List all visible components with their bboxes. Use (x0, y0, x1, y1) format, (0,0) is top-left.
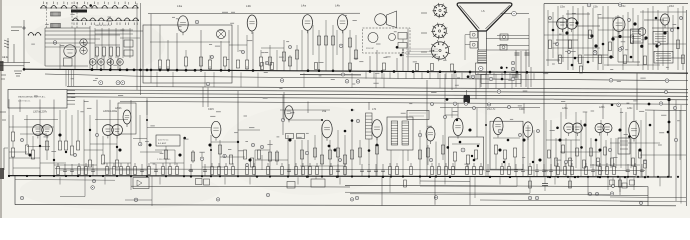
right circled nodes (555, 42, 558, 45)
tuner res wires (159, 66, 161, 70)
bottom-left bus dots (8, 175, 10, 177)
res ladder rail top (95, 44, 120, 46)
svg-text:L5d: L5d (669, 4, 674, 8)
elco C1 (80, 39, 87, 46)
speaker frame v (528, 18, 530, 67)
gang dot (89, 4, 92, 7)
long vertical x140 (140, 3, 142, 95)
shield tube (123, 110, 131, 124)
svg-text:LS: LS (482, 10, 485, 13)
bottom inner line c (590, 194, 648, 197)
drop wires to bundle (65, 70, 67, 86)
below-bus extra (345, 192, 530, 193)
out tube V7 (613, 18, 625, 32)
socket C (431, 42, 448, 59)
IF tube V5 (338, 15, 348, 31)
det verticals (444, 115, 446, 177)
ground bus bottom (8, 176, 672, 177)
V11 resistors (350, 150, 353, 159)
pin dot V2 (195, 20, 199, 24)
right-bottom circled (564, 160, 567, 163)
bus start marks (14, 70, 22, 72)
long vertical x427 (426, 80, 428, 177)
right-bottom resistors (548, 150, 551, 158)
selector contacts (402, 49, 403, 50)
right-bottom sparse right (645, 109, 686, 112)
bot bus dots 2 (269, 175, 271, 177)
chassis box bottom (15, 205, 676, 206)
below bus mid (130, 176, 132, 190)
AF dots (328, 145, 331, 148)
tl extra hwires (45, 42, 95, 44)
svg-text:L7b: L7b (372, 108, 377, 111)
cone inner line L (460, 5, 480, 28)
left verticals (59, 44, 61, 70)
cap below bus (542, 183, 548, 185)
bottom inner line b (345, 185, 648, 186)
switch frame top (45, 27, 90, 29)
bus stub comb (365, 72, 367, 79)
det circled (464, 102, 468, 106)
RF tube V2 (178, 16, 188, 32)
cone inner line R (486, 5, 510, 29)
tap trans box 2 (654, 51, 673, 63)
speaker wires (497, 35, 529, 37)
shield box (118, 103, 136, 134)
voice coil (478, 50, 487, 63)
switch row 1 (41, 6, 46, 8)
det box 1 (449, 137, 484, 169)
band pass box (407, 111, 429, 120)
right section h-wires (544, 34, 592, 36)
osc tube V1 (64, 45, 76, 57)
svg-text:C49x: C49x (519, 108, 525, 111)
elco row wires (92, 65, 94, 70)
mid resistors (164, 150, 167, 159)
bl extra dots (39, 145, 41, 147)
AF circled (305, 151, 309, 155)
narrow IF box (366, 113, 373, 139)
det tube V13 (453, 118, 463, 135)
det box 2 items (498, 129, 502, 133)
svg-text:RANGE SWITCH: RANGE SWITCH (95, 24, 111, 27)
svg-text:MAINS AERIAL EARTH A.C.: MAINS AERIAL EARTH A.C. (18, 96, 46, 99)
tl small box (124, 40, 133, 47)
dashed shaft line 1 (46, 2, 48, 28)
V12 circled (418, 133, 422, 137)
sub-ground line left (15, 179, 115, 182)
bus-to-bundle drops (156, 72, 158, 87)
bottom-left hwires (27, 146, 50, 148)
bus junction pair (467, 75, 470, 78)
IF resistors (317, 36, 320, 45)
below-bus right cluster (607, 178, 609, 191)
switch frame left (44, 28, 46, 66)
IF verticals (301, 30, 303, 71)
right-bottom hwires (546, 139, 580, 141)
speaker neck (477, 31, 479, 50)
box feed wires (67, 90, 75, 92)
left vert x9 (8, 115, 10, 176)
heater bundle line 4 (67, 97, 688, 100)
link wire a (45, 30, 143, 32)
left col vertical low (3, 148, 5, 170)
output trans boxes L (470, 32, 478, 39)
aerial wire h2 (0, 65, 24, 67)
det dots (447, 146, 450, 149)
note text rows (406, 48, 438, 50)
res ladder wires (96, 56, 98, 70)
below circled right (355, 196, 359, 200)
V11 verticals (351, 120, 353, 177)
right section verticals (547, 10, 549, 66)
IF trans box (387, 117, 413, 150)
mid resistors (282, 52, 285, 61)
bl extra hwires (9, 126, 54, 128)
bus beads right (369, 70, 372, 73)
below-bus boxes L (196, 179, 203, 185)
mid tube V9 (211, 121, 221, 137)
output transformer box (618, 138, 630, 154)
right frame top (544, 3, 688, 5)
svg-text:L20a: L20a (562, 107, 568, 110)
aerial wire v2 (13, 44, 15, 63)
bus bead dots (91, 68, 94, 71)
below-bus stub wires (59, 177, 61, 184)
right frame left (543, 4, 545, 177)
dashed shaft line 2 (71, 2, 73, 28)
svg-text:L5a: L5a (322, 110, 327, 113)
osc tube V3 (247, 15, 257, 31)
socket A (434, 4, 446, 16)
bottom right box right edge (647, 187, 649, 206)
right section resistors (549, 40, 552, 49)
scan edge strip (0, 0, 2, 218)
component row above ground bus L (57, 167, 60, 175)
aerial wire v1 (7, 38, 9, 63)
right-bottom dots (556, 127, 559, 130)
det hwires (440, 107, 540, 109)
small circle tube (638, 28, 646, 36)
AF hwires (288, 119, 322, 121)
phone speaker (375, 14, 387, 26)
small box B1 (64, 58, 73, 66)
bundle drop wires (8, 99, 10, 115)
svg-text:C215: C215 (208, 108, 214, 111)
V12 resistors (418, 150, 421, 159)
tuner box (143, 25, 232, 83)
svg-text:L4b: L4b (335, 4, 340, 8)
AF tube V10 (322, 120, 332, 138)
mb extra (155, 149, 175, 151)
junction bus start (23, 68, 26, 71)
bottom stage junction dots (468, 128, 471, 131)
rt extra dots (552, 29, 555, 32)
twin triode V6 (557, 18, 568, 29)
svg-text:L202b: L202b (115, 108, 122, 110)
det tube V14 (523, 122, 532, 137)
tl tick row (43, 2, 45, 5)
speaker band verticals (369, 56, 371, 71)
AF twin tube 1 (33, 125, 44, 136)
diode box (133, 178, 149, 189)
rt extra hwires (548, 21, 566, 23)
mid circled (138, 142, 142, 146)
phono dashed box (363, 28, 411, 53)
det tube V12 (426, 127, 435, 141)
svg-text:PICK UP: PICK UP (366, 48, 375, 50)
aerial arcs (28, 33, 33, 35)
heater bundle line 3 (67, 93, 688, 96)
switch row 2 (73, 18, 78, 20)
AF twin tube 2 (103, 125, 114, 136)
AF verticals (254, 150, 256, 176)
top node (587, 3, 591, 7)
mixer X (216, 29, 225, 38)
rt small circles (548, 16, 551, 19)
svg-text:L5a: L5a (560, 5, 565, 9)
bottom inner line a (131, 185, 350, 188)
speaker cone (457, 3, 512, 31)
svg-text:A.F. AMP: A.F. AMP (158, 142, 167, 145)
below bus right (381, 177, 383, 206)
component row above ground bus R (360, 169, 364, 171)
below-bus nested box (420, 180, 470, 182)
scan blob left upper (0, 61, 4, 71)
tl inner verticals (94, 28, 96, 58)
mains spec box (8, 90, 67, 109)
tuner resistors (158, 60, 161, 69)
socket labels (421, 12, 427, 14)
rt junction dots (575, 21, 578, 24)
cap symbols speaker band (515, 52, 520, 54)
below small res (404, 180, 407, 187)
right-bottom verticals (545, 120, 547, 176)
tuning gang bar (71, 10, 87, 13)
below-bus line mid-right (350, 194, 610, 195)
svg-text:L3a: L3a (177, 4, 182, 8)
mid dots (183, 137, 186, 140)
tuner extra parts (236, 60, 239, 68)
sub bus segment (300, 74, 361, 76)
switch row 2 rail (72, 20, 138, 22)
rb bus dots (547, 176, 549, 178)
mid hwires (140, 151, 162, 153)
pickup circle (368, 33, 378, 43)
heater bundle line 2 (67, 90, 688, 93)
circled junctions under bus (99, 81, 103, 85)
dashed shaft line 3 (76, 2, 78, 28)
coil circle (479, 66, 483, 70)
IF circled node (339, 44, 343, 48)
out tube V15 (629, 121, 639, 138)
tuner verticals (150, 14, 152, 83)
top node pair (611, 104, 614, 107)
selector box 1 (398, 33, 407, 40)
res ladder (95, 47, 98, 56)
chassis box left (14, 176, 16, 205)
IF trans wires (390, 150, 392, 177)
switch row 2 ticks (73, 23, 75, 26)
scan blob left lower (0, 168, 4, 179)
det box 2 (490, 121, 523, 169)
det tube V14b (493, 118, 503, 135)
bus-mounted parts (261, 63, 264, 70)
tap trans box 1b (653, 32, 668, 45)
bottom-left resistors (25, 145, 28, 154)
elco row (89, 59, 96, 66)
bus dots row bottom (190, 175, 192, 177)
out twin 1 (564, 123, 574, 133)
frame node (512, 11, 517, 16)
out twin 2 (595, 123, 604, 132)
aerial wire h1 (0, 62, 30, 64)
small tube x289 (285, 106, 293, 120)
AVC line (120, 102, 688, 105)
speaker bottom circles (511, 61, 515, 65)
socket B (433, 24, 447, 38)
aerial arrows (4, 40, 9, 48)
mid bus dots (130, 175, 132, 177)
link wire c (45, 38, 100, 40)
svg-text:L20b: L20b (599, 106, 605, 109)
mid verticals (269, 45, 271, 70)
mid verticals 2 (130, 133, 132, 176)
svg-text:1 220 TO 245: 1 220 TO 245 (157, 159, 171, 161)
selector box 2 (398, 43, 407, 49)
small trimmer (53, 41, 57, 45)
svg-text:L20c: L20c (627, 107, 633, 110)
value annotations texture (401, 112, 406, 114)
heavy vertical (668, 100, 670, 177)
band coil L1 (51, 12, 61, 16)
svg-text:AE E: AE E (2, 55, 8, 59)
out tube V8 (661, 14, 670, 25)
AF tube V11 (372, 120, 382, 138)
heater bundle line 1 (67, 86, 688, 89)
switch row 1 rail (40, 7, 138, 9)
det box 1 items (461, 148, 465, 152)
relay box below bus (481, 75, 521, 84)
bundle drop pair mid (202, 87, 204, 107)
elco C2 (80, 47, 87, 54)
wire to bus (23, 20, 25, 69)
svg-text:L207a L207b: L207a L207b (33, 111, 48, 114)
right frame right (686, 10, 688, 206)
tap trans box 1 (631, 29, 644, 43)
svg-text:L5x L7x: L5x L7x (487, 108, 496, 111)
circled under-bus nodes (280, 79, 284, 83)
top rail (148, 12, 360, 14)
link wire b (45, 34, 120, 36)
svg-text:L203b L203a: L203b L203a (103, 110, 118, 113)
IF tube V4 (303, 15, 313, 31)
left col boxes (11, 132, 14, 141)
V12 verticals (419, 130, 421, 177)
long vertical x137 (136, 3, 138, 90)
det box1 extra (474, 150, 477, 159)
main HT bus (24, 69, 688, 73)
V11 dots (351, 119, 354, 122)
selector dot (396, 46, 399, 49)
speaker bottom dots (500, 66, 503, 69)
AF resistors (268, 152, 271, 161)
crystal box (156, 135, 180, 146)
svg-text:L3b: L3b (246, 4, 251, 8)
mid box lines (125, 199, 152, 201)
svg-text:L5b: L5b (593, 5, 598, 9)
svg-text:L4a: L4a (301, 4, 306, 8)
bus line 2 (45, 74, 140, 76)
output trans boxes R (500, 34, 508, 40)
svg-text:0.05 TO 0.1: 0.05 TO 0.1 (158, 140, 169, 142)
IF bus dots (307, 69, 310, 72)
bottom-left verticals (26, 115, 28, 145)
component rail above bus (55, 169, 645, 171)
tuner bus dots (150, 69, 153, 72)
bl extra circled (20, 138, 23, 141)
dark cap (464, 95, 471, 104)
selector wires (402, 39, 404, 43)
left margin marks (1, 74, 6, 76)
band coil L2 (51, 24, 61, 28)
